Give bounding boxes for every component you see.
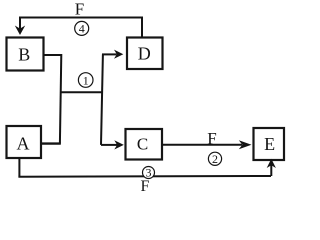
svg-text:4: 4	[79, 22, 85, 36]
wire trunk vertical	[60, 54, 61, 144]
wire B output to trunk	[44, 54, 62, 56]
label circled 3	[143, 166, 155, 180]
arrowhead into E left	[239, 140, 252, 149]
block D	[127, 38, 163, 70]
svg-text:C: C	[137, 135, 148, 154]
wire A output to trunk	[41, 142, 61, 144]
block B	[7, 38, 44, 71]
wire C output to E	[162, 144, 242, 146]
svg-text:A: A	[17, 134, 30, 154]
wire into C	[101, 144, 117, 146]
svg-text:D: D	[138, 44, 151, 64]
arrowhead into E bottom	[267, 159, 276, 168]
svg-text:1: 1	[83, 73, 89, 87]
svg-text:2: 2	[212, 152, 218, 166]
svg-text:F: F	[207, 129, 216, 148]
wire A bottom down	[18, 158, 20, 177]
arrowhead into C left	[114, 140, 124, 149]
svg-text:F: F	[75, 0, 84, 19]
label circled 1	[78, 73, 93, 88]
wire bottom horizontal to E	[18, 175, 271, 178]
block A	[7, 126, 42, 158]
svg-text:B: B	[18, 45, 30, 65]
arrowhead into B top	[15, 26, 25, 36]
svg-text:F: F	[141, 178, 150, 194]
arrowhead into D left	[114, 50, 123, 59]
label circled 4	[75, 21, 89, 35]
block E	[254, 128, 285, 160]
wire into D	[102, 53, 117, 55]
wire up into E bottom	[270, 165, 272, 176]
svg-text:E: E	[264, 134, 275, 154]
wire branch 1 horizontal	[60, 91, 102, 93]
wire right vertical splitter	[101, 54, 103, 144]
block C	[126, 129, 163, 160]
wire top horizontal D-to-B	[20, 18, 142, 38]
label circled 2	[208, 152, 221, 166]
